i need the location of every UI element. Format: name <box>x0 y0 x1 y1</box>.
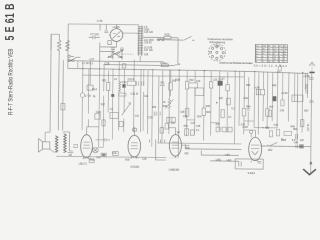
wire v112 <box>112 69 114 113</box>
svg-text:R32: R32 <box>189 80 194 82</box>
wire jog1 <box>187 119 195 121</box>
dial lamp 1 cross <box>93 148 97 152</box>
svg-text:C21 R: C21 R <box>128 79 135 81</box>
svg-text:C31 R: C31 R <box>130 92 138 96</box>
tube UEL71 pin ticks <box>82 157 90 159</box>
resistor R48 <box>269 131 272 137</box>
wire v211 <box>210 71 213 135</box>
svg-text:Rohrenfassung: Rohrenfassung <box>210 41 226 44</box>
tube U25 envelope <box>110 29 123 42</box>
electrolytic C44 <box>292 95 303 102</box>
output transformer winding b <box>64 134 67 153</box>
capacitor C19 <box>136 81 138 86</box>
svg-text:R26: R26 <box>152 107 157 109</box>
svg-text:R38: R38 <box>185 148 190 150</box>
capacitor C32 <box>160 84 165 86</box>
cap small v227 <box>226 98 230 105</box>
wire v77 <box>77 61 79 69</box>
svg-text:C17: C17 <box>89 57 94 61</box>
svg-text:R29: R29 <box>172 81 177 83</box>
box R54 <box>284 131 292 135</box>
svg-text:C34: C34 <box>196 81 201 83</box>
mains switch contact <box>268 142 283 146</box>
svg-text:L482: L482 <box>225 155 231 157</box>
svg-text:+C 24: +C 24 <box>112 25 120 29</box>
wire phono line <box>157 36 195 40</box>
antenna arrowhead <box>311 64 313 71</box>
tube UBF80 electrodes <box>171 128 189 159</box>
wire v158 <box>157 76 160 143</box>
output transformer winding a <box>55 136 58 152</box>
phono connector circles <box>158 39 160 41</box>
resistor box grid <box>108 41 111 45</box>
wire v254 <box>253 71 256 127</box>
svg-text:U Drv: U Drv <box>160 61 168 65</box>
wire v239 <box>238 71 241 126</box>
wire v119 <box>117 61 120 130</box>
table voltages grid <box>255 44 287 62</box>
wire v99 x99.3 <box>99 59 100 148</box>
wire osc section <box>100 42 117 61</box>
wire v162 <box>161 70 164 143</box>
svg-text:L483: L483 <box>226 160 232 162</box>
tube UEL71 envelope <box>81 135 93 158</box>
gang dashed line <box>110 53 133 55</box>
resistor R31c <box>185 108 188 116</box>
wire v104 <box>90 61 109 119</box>
svg-text:C41: C41 <box>96 157 101 159</box>
wire tube UY82 top <box>244 130 256 138</box>
wire v302 <box>301 73 304 133</box>
wire v179 <box>177 70 180 158</box>
svg-text:R14: R14 <box>92 87 97 91</box>
wire v263 <box>262 72 265 122</box>
svg-text:R-F-T Stern-Radio Rochlitz VEB: R-F-T Stern-Radio Rochlitz VEB <box>8 48 15 115</box>
svg-text:1M: 1M <box>177 132 180 134</box>
resistor R16 <box>87 85 93 90</box>
wire drop x105.6 <box>105 24 107 29</box>
wire v88 <box>87 69 90 128</box>
capacitor on v248 <box>247 108 250 126</box>
svg-text:L452: L452 <box>216 160 222 162</box>
resistor on H2 <box>161 64 168 67</box>
wire v204 <box>202 71 205 141</box>
wire v195 <box>194 71 197 134</box>
right rail <box>311 72 312 173</box>
wire v277 <box>276 72 279 128</box>
resistor R31 vertical <box>185 81 188 89</box>
capacitor pair mid <box>154 112 160 116</box>
resistor bottom 2 <box>101 153 106 156</box>
tube UY82 envelope <box>249 137 262 161</box>
wire v272 <box>271 73 274 122</box>
svg-text:L7 25: L7 25 <box>85 96 91 98</box>
svg-text:R36: R36 <box>206 106 211 108</box>
svg-text:R49: R49 <box>291 126 296 128</box>
resistor R40 <box>165 124 168 130</box>
capacitor bottom near T_b <box>113 152 119 156</box>
wire v187 <box>186 71 189 136</box>
mid-section vertical wires and components <box>45 58 314 165</box>
antenna symbol top right <box>309 62 315 65</box>
resistor R47b <box>281 100 284 106</box>
node antenna socket B <box>68 59 70 61</box>
svg-text:C35: C35 <box>213 80 218 82</box>
title model number 5E61B vertical <box>4 3 18 40</box>
box small v211 <box>209 82 212 89</box>
wire v267 <box>266 72 269 128</box>
wire v307 <box>306 73 308 98</box>
mains cap component <box>296 145 304 149</box>
box C29 <box>127 81 136 85</box>
wire T1 tap to R25 <box>143 36 164 38</box>
transformer top bracket <box>62 132 73 151</box>
capacitor C20 <box>142 81 144 86</box>
lamp circle small <box>80 93 84 97</box>
svg-text:Gew: Gew <box>96 110 102 114</box>
wire v244 <box>243 71 246 134</box>
node dot v204 <box>204 70 205 71</box>
wire v235 <box>233 71 236 144</box>
resistor R21 vertical <box>106 82 109 90</box>
junction dots bus H3 <box>82 68 303 73</box>
speaker wires bottom <box>45 132 58 152</box>
tube UEL71 electrodes <box>83 127 91 160</box>
tiny labels <box>79 19 311 176</box>
wire tube anode to IF <box>123 32 139 34</box>
heater wire 1 <box>157 142 241 145</box>
capacitor C50 plates <box>309 78 314 80</box>
svg-text:C38: C38 <box>180 112 185 114</box>
svg-text:R51: R51 <box>90 160 95 162</box>
resistor v222 <box>221 110 224 118</box>
resistor R46 <box>268 110 271 117</box>
wire tube UCH81a top <box>133 127 137 131</box>
svg-text:UCH81: UCH81 <box>130 164 139 168</box>
IF transformer T1 winding ticks <box>137 27 143 54</box>
wire v147 <box>146 70 149 134</box>
svg-text:R45: R45 <box>272 85 277 87</box>
wire R25 to v177 <box>171 38 178 64</box>
svg-text:C49: C49 <box>274 125 279 127</box>
box under pot C33 <box>160 98 230 136</box>
svg-text:C38: C38 <box>241 124 246 126</box>
svg-text:C18: C18 <box>104 61 109 65</box>
svg-text:L7 W 0,1: L7 W 0,1 <box>82 61 93 65</box>
tube UBF80 pin ticks <box>169 157 177 159</box>
svg-text:C47: C47 <box>191 123 196 125</box>
svg-text:+C37: +C37 <box>218 77 225 81</box>
tube UCH81a envelope <box>128 135 141 157</box>
capacitor C46 small <box>74 145 78 148</box>
heater wire 4 <box>210 160 238 162</box>
svg-text:R33: R33 <box>206 112 211 114</box>
svg-text:C7 100: C7 100 <box>90 32 99 36</box>
ground arrow bottom right <box>303 169 316 175</box>
capacitor near T_a <box>95 138 110 141</box>
svg-text:+C50: +C50 <box>303 74 310 78</box>
svg-text:R47: R47 <box>269 107 274 109</box>
svg-text:+C40: +C40 <box>254 88 260 90</box>
speaker cone <box>39 139 43 153</box>
tube socket pins <box>209 46 224 60</box>
tube UBF80 envelope <box>169 135 181 157</box>
wire v140 <box>139 69 142 132</box>
svg-text:Tonabnehmer-Anschluss: Tonabnehmer-Anschluss <box>207 38 233 41</box>
resistor R50 <box>276 129 279 136</box>
wire jog2 <box>211 122 219 124</box>
svg-text:C45: C45 <box>196 126 201 128</box>
resistor R41 <box>242 108 245 116</box>
tube UCH81a pin ticks <box>130 157 138 159</box>
capacitor C53 <box>295 134 297 140</box>
wire v305 <box>304 73 306 89</box>
osc cross wires <box>107 50 122 58</box>
coil box Gew2 <box>110 112 118 118</box>
coil L8 zigzag <box>119 81 121 92</box>
wire v294 <box>293 73 295 95</box>
svg-text:R40: R40 <box>184 126 189 128</box>
svg-text:U 25: U 25 <box>97 19 103 23</box>
svg-text:C45: C45 <box>142 159 147 161</box>
svg-text:50+50/12,5 6A2: 50+50/12,5 6A2 <box>254 64 288 68</box>
svg-text:C33: C33 <box>148 115 153 119</box>
capacitor C7 <box>89 36 100 40</box>
junction dots h126 <box>262 127 267 128</box>
IF can box 2 <box>195 88 204 96</box>
heater wire 3 <box>201 150 239 155</box>
wire v169 <box>168 70 171 134</box>
wire v82 <box>81 61 84 130</box>
svg-text:C30: C30 <box>122 82 127 84</box>
svg-text:R25: R25 <box>165 33 170 37</box>
coil L2 winding <box>66 40 70 50</box>
tube U25 electrodes <box>109 24 121 47</box>
svg-text:R30: R30 <box>163 106 168 108</box>
wire v219 <box>218 71 221 131</box>
wire segment <box>191 130 195 136</box>
ticks on heater wire <box>149 139 166 160</box>
svg-text:R37: R37 <box>216 124 221 126</box>
svg-text:C15: C15 <box>108 55 113 59</box>
mains box details <box>239 161 262 166</box>
resistor R33 vertical <box>202 108 205 116</box>
dial lamp 1 <box>93 147 99 153</box>
svg-text:R39: R39 <box>125 160 130 162</box>
svg-text:U82: U82 <box>184 153 189 155</box>
wire left long v1 <box>50 34 51 132</box>
svg-text:a52: a52 <box>268 148 273 152</box>
svg-text:C31: C31 <box>135 116 140 118</box>
transformer bottom components <box>67 152 73 155</box>
wire v152 <box>151 69 154 147</box>
wire jog3 <box>244 120 254 122</box>
electrolytic C37 <box>218 81 223 86</box>
speaker magnet box <box>43 142 50 149</box>
svg-text:C36: C36 <box>183 116 188 118</box>
pot wiper arrow <box>122 103 131 116</box>
svg-text:R42: R42 <box>246 85 251 87</box>
box left diode <box>160 128 163 134</box>
wire v297 <box>296 73 299 142</box>
bottom component row box1 <box>89 159 94 163</box>
svg-text:+C44: +C44 <box>281 91 288 95</box>
svg-text:C25 120: C25 120 <box>144 32 153 34</box>
svg-text:0,85: 0,85 <box>281 140 286 142</box>
switch antenna link <box>70 56 80 61</box>
svg-text:C43: C43 <box>280 110 285 112</box>
svg-text:C37 50: C37 50 <box>308 123 310 131</box>
svg-text:+90: +90 <box>293 141 298 145</box>
dark electrolytic C43 <box>272 96 276 101</box>
wire antenna drop <box>67 24 70 68</box>
svg-text:C26 50: C26 50 <box>144 42 152 44</box>
wire T1 bottom tap <box>139 56 141 62</box>
resistor R25 <box>164 36 171 39</box>
svg-text:R57: R57 <box>304 111 309 113</box>
junction dot 216 <box>216 102 218 104</box>
svg-text:C28: C28 <box>144 54 149 56</box>
tube base cluster boxes <box>216 127 232 132</box>
component v227 <box>226 84 229 90</box>
capacitor C15 trimmer <box>111 48 115 60</box>
wire v288 <box>287 72 290 121</box>
svg-text:UABC80: UABC80 <box>169 168 180 172</box>
wire v104 extend <box>99 119 104 147</box>
capacitor C24 <box>104 31 108 32</box>
wire v170 <box>169 70 171 96</box>
wire h126 <box>254 127 277 129</box>
coil box Gew1 <box>95 114 101 120</box>
horizontal bus H1 <box>68 61 163 62</box>
tube UCH81a electrodes <box>130 127 138 159</box>
svg-text:R17: R17 <box>101 104 106 106</box>
svg-text:C22: C22 <box>144 96 149 98</box>
title maker R-F-T Stern-Radio Rochlitz VEB vertical <box>8 48 15 115</box>
resistor on v63 <box>61 103 65 110</box>
heater wire 2 <box>185 144 241 149</box>
svg-text:R37: R37 <box>219 98 224 100</box>
capacitor C51 plates <box>309 101 313 103</box>
capacitor C31b <box>119 122 123 127</box>
svg-text:UEL71: UEL71 <box>79 161 88 165</box>
box C34 <box>189 83 198 88</box>
resistor R41b <box>278 66 281 71</box>
wire v112 extend <box>111 112 113 139</box>
bottom bus left <box>56 156 166 157</box>
svg-text:+C48: +C48 <box>242 127 248 129</box>
mains switch wire <box>260 145 310 148</box>
wire v227 <box>226 72 229 133</box>
electrolytic block <box>256 89 265 95</box>
wire segment <box>279 64 281 72</box>
tube UY82 electrodes <box>251 130 266 163</box>
svg-text:R44: R44 <box>246 106 251 108</box>
resistor between H2 H3 <box>122 64 125 68</box>
svg-text:S E61: S E61 <box>248 171 256 175</box>
capacitor C47 <box>171 122 175 123</box>
node dot v179 <box>179 69 180 70</box>
resistor horizontal R19 <box>119 93 126 96</box>
svg-text:C42: C42 <box>112 153 117 155</box>
caps cluster row <box>185 129 189 136</box>
mains box <box>235 159 263 169</box>
wire v248 <box>247 77 249 108</box>
tube socket diagram dashed circle <box>208 44 225 61</box>
svg-text:Ansicht von der Ruckseite des: Ansicht von der Ruckseite des Gerates <box>219 62 253 65</box>
wire v282 <box>281 73 283 100</box>
wire v124 <box>123 69 126 132</box>
wire tube UBF80 top <box>169 127 176 129</box>
resistor R56 <box>300 120 303 127</box>
horizontal bus H4 <box>82 75 244 77</box>
wire tube UEL71 top <box>87 126 99 128</box>
dark blob small <box>111 94 114 97</box>
volume pot <box>165 99 173 109</box>
wire v258 <box>257 72 260 134</box>
wire segment <box>170 117 172 122</box>
wire left long v2 <box>57 50 60 130</box>
wire left long v3 <box>62 60 65 130</box>
coil L1 winding <box>57 40 61 50</box>
wire top bus <box>68 23 139 26</box>
svg-text:R34: R34 <box>197 116 202 118</box>
node antenna socket A <box>68 55 70 57</box>
svg-text:C16: C16 <box>118 55 123 59</box>
resistor R28 vertical <box>169 83 172 91</box>
svg-text:R21: R21 <box>102 80 107 82</box>
wire v143 <box>142 70 145 131</box>
svg-text:U Drv: U Drv <box>214 45 221 48</box>
wire U25 drop <box>99 24 101 30</box>
horizontal bus H3 <box>68 68 309 73</box>
coil L1 bracket <box>51 34 59 50</box>
capacitor C16 trimmer <box>120 48 124 60</box>
IF transformer T1 rails <box>139 25 142 56</box>
horizontal bus H2 <box>103 63 180 66</box>
svg-text:5 E 61 B: 5 E 61 B <box>4 3 18 40</box>
capacitor dark C30 <box>122 84 125 88</box>
svg-text:C27 120: C27 120 <box>144 50 153 52</box>
wire v133 <box>132 60 135 132</box>
svg-text:R54: R54 <box>293 129 298 131</box>
resistor R17b <box>102 120 105 126</box>
resistor R44 <box>266 109 269 117</box>
svg-text:C52 5000: C52 5000 <box>306 83 308 94</box>
